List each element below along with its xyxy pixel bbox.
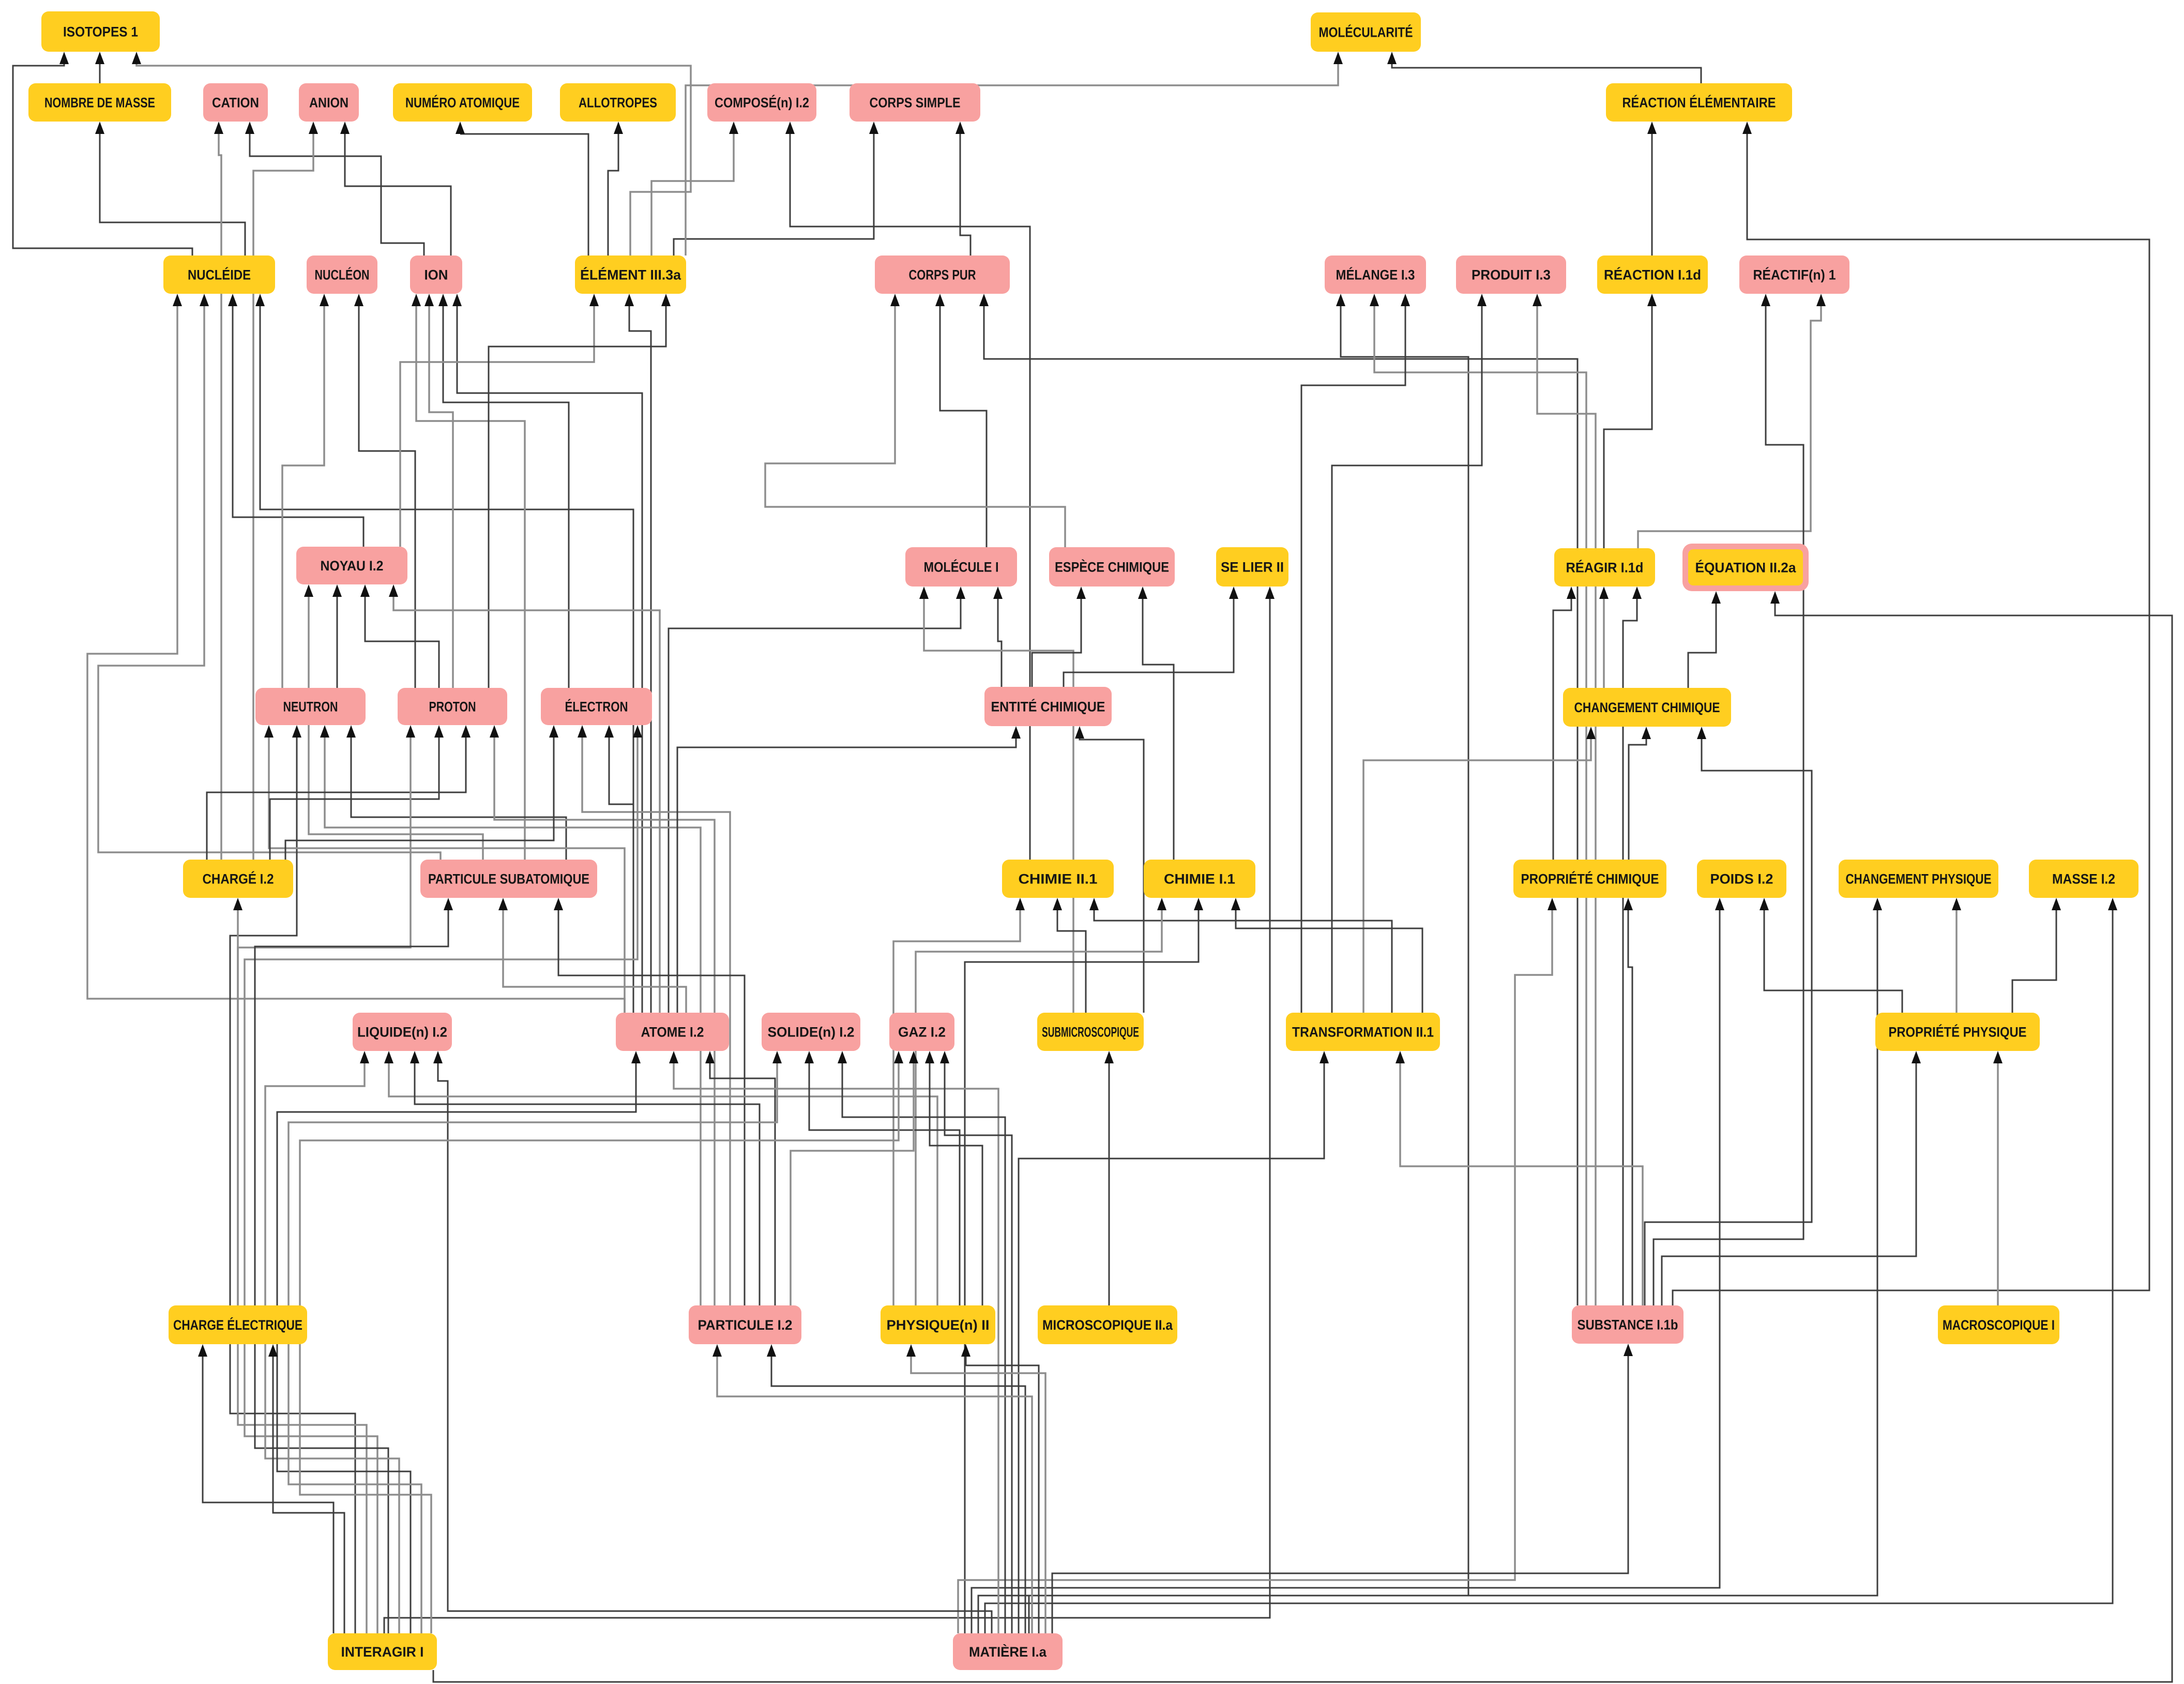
wire TRANSFO to PRODUIT <box>1332 294 1487 1013</box>
node MOLÉCULE I <box>905 547 1017 587</box>
svg-text:ANION: ANION <box>309 95 348 111</box>
wire MATIERE to PARTICULE <box>767 1344 1025 1633</box>
node PROPRIÉTÉ CHIMIQUE <box>1513 860 1666 898</box>
wire MATIERE to PARTICULE <box>712 1344 1032 1633</box>
node ÉLECTRON <box>541 688 652 725</box>
node NEUTRON <box>255 688 366 725</box>
wire ATOME to NEUTRON <box>264 725 625 1013</box>
node SUBSTANCE I.1b <box>1572 1305 1684 1344</box>
wire INTERAGIR to ATOME <box>277 1051 641 1633</box>
svg-text:NUCLÉIDE: NUCLÉIDE <box>188 267 251 283</box>
svg-text:MASSE I.2: MASSE I.2 <box>2052 871 2115 887</box>
svg-text:ESPÈCE CHIMIQUE: ESPÈCE CHIMIQUE <box>1055 559 1169 575</box>
wire NUCLEIDE to ISOTOPES <box>13 52 192 255</box>
wire CHARGE to ANION <box>253 122 318 860</box>
node ATOME I.2 <box>616 1013 729 1051</box>
wire PART_SUB to ION <box>412 294 525 860</box>
wire INTERAGIR to CHARGE_ELEC <box>268 1344 344 1633</box>
wire CHANGT_CHIM to REAGIR <box>1599 587 1609 688</box>
wire TRANSFO to CHANGT_CHIM <box>1363 727 1596 1013</box>
wire MATIERE to CHIMIE_I1 <box>965 898 1203 1633</box>
node SE LIER II <box>1216 547 1288 587</box>
svg-text:ÉQUATION II.2a: ÉQUATION II.2a <box>1695 560 1797 576</box>
wire MATIERE to LIQUIDE <box>433 1051 992 1633</box>
node NOYAU I.2 <box>296 547 407 584</box>
node RÉACTION ÉLÉMENTAIRE <box>1606 83 1792 122</box>
wire MATIERE to SOLIDE <box>838 1051 1005 1633</box>
wire MATIERE to MASSE <box>985 898 2117 1633</box>
wire PART_SUB to NEUTRON <box>346 725 566 860</box>
svg-text:TRANSFORMATION II.1: TRANSFORMATION II.1 <box>1292 1025 1434 1040</box>
node GAZ I.2 <box>889 1013 954 1051</box>
wire ATOME to NOYAU <box>389 584 660 1013</box>
svg-text:NOYAU I.2: NOYAU I.2 <box>321 558 384 574</box>
svg-text:MOLÉCULARITÉ: MOLÉCULARITÉ <box>1319 24 1413 40</box>
wire INTERAGIR to PART_SUB <box>255 898 453 1633</box>
svg-text:LIQUIDE(n) I.2: LIQUIDE(n) I.2 <box>357 1025 447 1040</box>
svg-text:MATIÈRE I.a: MATIÈRE I.a <box>969 1644 1047 1660</box>
wire MATIERE to PHYSIQUE <box>906 1344 1045 1633</box>
svg-text:MICROSCOPIQUE II.a: MICROSCOPIQUE II.a <box>1042 1317 1173 1333</box>
node MACROSCOPIQUE I <box>1938 1305 2059 1344</box>
wire ATOME to ELECTRON <box>604 725 633 1013</box>
node NUMÉRO ATOMIQUE <box>393 83 532 122</box>
node CHANGEMENT PHYSIQUE <box>1839 860 1998 898</box>
node COMPOSÉ(n) I.2 <box>707 83 816 122</box>
wire ATOME to NUCLEIDE <box>255 294 633 1013</box>
svg-text:CHANGEMENT PHYSIQUE: CHANGEMENT PHYSIQUE <box>1846 871 1992 887</box>
wire PROP_CHIM to CHANGT_CHIM <box>1629 727 1651 860</box>
node PRODUIT I.3 <box>1456 255 1566 294</box>
wire ION to ANION <box>340 122 451 255</box>
wire CHARGE to PROTON <box>270 725 444 860</box>
wire MATIERE to PROP_CHIM <box>958 898 1557 1633</box>
svg-text:PRODUIT I.3: PRODUIT I.3 <box>1472 267 1551 283</box>
wire PHYSIQUE to LIQUIDE <box>384 1051 937 1305</box>
svg-text:CHARGE ÉLECTRIQUE: CHARGE ÉLECTRIQUE <box>173 1317 302 1333</box>
node RÉAGIR I.1d <box>1554 548 1655 587</box>
svg-text:INTERAGIR I: INTERAGIR I <box>341 1644 424 1660</box>
wire PHYSIQUE to CHIMIE_I1 <box>916 898 1166 1305</box>
svg-text:POIDS I.2: POIDS I.2 <box>1710 871 1773 887</box>
node SUBMICROSCOPIQUE <box>1037 1013 1144 1051</box>
node CORPS SIMPLE <box>850 83 980 122</box>
svg-text:PHYSIQUE(n) II: PHYSIQUE(n) II <box>887 1317 990 1333</box>
node ANION <box>299 83 359 122</box>
wire CHARGE to ELECTRON <box>285 725 558 860</box>
node ÉLÉMENT III.3a <box>575 255 686 294</box>
node PROTON <box>398 688 507 725</box>
node NOMBRE DE MASSE <box>28 83 171 122</box>
node CHARGE ÉLECTRIQUE <box>169 1305 307 1344</box>
node ION <box>410 255 462 294</box>
svg-text:SUBSTANCE I.1b: SUBSTANCE I.1b <box>1578 1317 1678 1333</box>
node MASSE I.2 <box>2029 860 2138 898</box>
node PARTICULE SUBATOMIQUE <box>420 860 597 898</box>
wire INTERAGIR to ELECTRON <box>245 725 642 1633</box>
wire NEUTRON to NOYAU <box>332 584 342 688</box>
wire TRANSFO to MELANGE <box>1301 294 1410 1013</box>
wire PARTICULE to NEUTRON <box>320 725 701 1305</box>
svg-text:RÉACTION ÉLÉMENTAIRE: RÉACTION ÉLÉMENTAIRE <box>1622 95 1776 111</box>
wire PHYSIQUE to CHIMIE_II1 <box>893 898 1025 1305</box>
wire INTERAGIR to EQUATION <box>433 591 2172 1682</box>
wire PARTICULE to GAZ <box>791 1051 918 1305</box>
wire SUBMICRO to CHIMIE_II1 <box>1053 898 1086 1013</box>
wire SUBSTANCE to CORPS_PUR <box>979 294 1578 1305</box>
wire ESPECE to CORPS_PUR <box>765 294 1065 547</box>
svg-text:PARTICULE I.2: PARTICULE I.2 <box>698 1317 793 1333</box>
wire PROP_PHYS to CHANGT_PHYS <box>1952 898 1961 1013</box>
wire ELEMENT to COMPOSE <box>651 122 738 255</box>
wire MATIERE to TRANSFO <box>1019 1051 1329 1633</box>
svg-text:SE LIER II: SE LIER II <box>1221 560 1284 575</box>
svg-text:ION: ION <box>424 267 448 283</box>
node PROPRIÉTÉ PHYSIQUE <box>1875 1013 2040 1051</box>
wire MOLECULE to CORPS_PUR <box>935 294 987 547</box>
wire TRANSFO to CHIMIE_I1 <box>1231 898 1422 1013</box>
wire ELEMENT to ALLOTROPES <box>608 122 623 255</box>
node MOLÉCULARITÉ <box>1311 12 1421 52</box>
wire SUBSTANCE to REACTIF <box>1654 294 1803 1305</box>
node PARTICULE I.2 <box>689 1305 801 1344</box>
wire SUBSTANCE to MELANGE <box>1370 294 1586 1305</box>
wire MACRO to PROP_PHYS <box>1993 1051 2003 1305</box>
wire CHIMIE_II1 to COMPOSE <box>785 122 1030 860</box>
svg-text:MÉLANGE I.3: MÉLANGE I.3 <box>1336 267 1415 283</box>
wire MATIERE to PHYSIQUE <box>961 1344 1039 1633</box>
wire PROTON to NUCLEON <box>354 294 415 688</box>
node CHANGEMENT CHIMIQUE <box>1563 688 1731 727</box>
wire INTERAGIR to CHARGE_ELEC <box>198 1344 333 1633</box>
wire INTERAGIR to NEUTRON <box>230 725 355 1633</box>
wire ELEMENT to CORPS_SIMPLE <box>674 122 878 255</box>
svg-text:NEUTRON: NEUTRON <box>283 699 338 715</box>
wire INTERAGIR to SE_LIER <box>384 587 1275 1633</box>
svg-text:MOLÉCULE I: MOLÉCULE I <box>924 559 999 575</box>
svg-text:RÉACTION I.1d: RÉACTION I.1d <box>1604 267 1701 283</box>
wire INTERAGIR to SOLIDE <box>289 1051 782 1633</box>
node ÉQUATION II.2a <box>1682 544 1809 591</box>
node PHYSIQUE(n) II <box>881 1305 995 1344</box>
wire REAGIR to REACTION_I1D <box>1604 294 1657 548</box>
wire PROP_CHIM to REAGIR <box>1553 587 1576 860</box>
node CHIMIE II.1 <box>1002 860 1114 898</box>
node NUCLÉIDE <box>163 255 275 294</box>
svg-text:CORPS PUR: CORPS PUR <box>909 267 976 283</box>
wire ATOME to MOLECULE <box>669 587 965 1013</box>
node INTERAGIR I <box>328 1633 437 1670</box>
wire REAGIR to REACTIF <box>1638 294 1826 548</box>
node RÉACTIF(n) 1 <box>1739 255 1849 294</box>
wire ENTITE to SE_LIER <box>1064 587 1238 687</box>
wire SUBSTANCE to REAGIR <box>1623 587 1642 1305</box>
svg-text:ALLOTROPES: ALLOTROPES <box>579 95 657 111</box>
svg-text:ISOTOPES 1: ISOTOPES 1 <box>63 24 138 40</box>
wire CHANGT_CHIM to EQUATION <box>1688 591 1721 688</box>
node TRANSFORMATION II.1 <box>1286 1013 1440 1051</box>
svg-text:ÉLECTRON: ÉLECTRON <box>565 699 628 715</box>
node CATION <box>203 83 268 122</box>
svg-text:CORPS SIMPLE: CORPS SIMPLE <box>870 95 961 111</box>
svg-text:ENTITÉ CHIMIQUE: ENTITÉ CHIMIQUE <box>991 699 1105 715</box>
wire REACTION_ELEM to MOLECULARITE <box>1387 52 1701 83</box>
node ALLOTROPES <box>560 83 676 122</box>
wire ATOME to ELEMENT <box>625 294 651 1013</box>
wire PROTON to ION <box>424 294 453 688</box>
wire SUBSTANCE to TRANSFO <box>1396 1051 1643 1305</box>
wire CORPS_PUR to CORPS_SIMPLE <box>956 122 970 255</box>
wire NEUTRON to NUCLEON <box>282 294 329 688</box>
svg-text:GAZ I.2: GAZ I.2 <box>898 1025 946 1040</box>
wire SUBSTANCE to REACTION_ELEM <box>1673 122 2149 1305</box>
node CHARGÉ I.2 <box>183 860 293 898</box>
wire MATIERE to MELANGE <box>1029 294 1468 1633</box>
wire ATOME to PART_SUB <box>498 898 686 1013</box>
svg-text:PROTON: PROTON <box>429 699 476 715</box>
svg-text:MACROSCOPIQUE I: MACROSCOPIQUE I <box>1943 1317 2055 1333</box>
svg-text:CATION: CATION <box>212 95 259 111</box>
wire SUBSTANCE to CHANGT_CHIM <box>1645 727 1812 1305</box>
wire CHARGE_ELEC to CHARGE <box>233 898 242 1305</box>
svg-text:ÉLÉMENT III.3a: ÉLÉMENT III.3a <box>580 267 681 283</box>
wire CHIMIE_I1 to ESPECE <box>1138 587 1174 860</box>
wire PART_SUB to NOYAU <box>304 584 483 860</box>
wire MATIERE to ATOME <box>669 1051 998 1633</box>
wire SUBSTANCE to PROP_PHYS <box>1662 1051 1921 1305</box>
node SOLIDE(n) I.2 <box>762 1013 860 1051</box>
wire PART_SUB to NUCLEIDE <box>98 294 441 860</box>
svg-text:CHIMIE I.1: CHIMIE I.1 <box>1164 871 1235 887</box>
node RÉACTION I.1d <box>1597 255 1708 294</box>
wire REACTION_I1D to REACTION_ELEM <box>1647 122 1657 255</box>
node MATIÈRE I.a <box>953 1633 1063 1670</box>
wire ATOME to NUCLEIDE <box>87 294 625 1013</box>
svg-text:PROPRIÉTÉ CHIMIQUE: PROPRIÉTÉ CHIMIQUE <box>1521 871 1659 887</box>
wire MICRO to SUBMICRO <box>1104 1051 1114 1305</box>
svg-text:NOMBRE DE MASSE: NOMBRE DE MASSE <box>44 95 155 111</box>
svg-text:PROPRIÉTÉ PHYSIQUE: PROPRIÉTÉ PHYSIQUE <box>1889 1024 2027 1040</box>
wire INTERAGIR to PROTON <box>238 725 415 1633</box>
wire CHARGE to PROTON <box>207 725 471 860</box>
wire ION to CATION <box>245 122 424 255</box>
wire SUBSTANCE to PRODUIT <box>1533 294 1596 1305</box>
wire MATIERE to GAZ <box>940 1051 1012 1633</box>
wire CHARGE to CATION <box>214 122 223 860</box>
wire INTERAGIR to GAZ <box>300 1051 903 1633</box>
svg-text:CHARGÉ I.2: CHARGÉ I.2 <box>203 871 274 887</box>
wire ENTITE to MOLECULE <box>993 587 1003 687</box>
wire PHYSIQUE to GAZ <box>925 1051 982 1305</box>
wire PROTON to NOYAU <box>360 584 439 688</box>
wire PARTICULE to PART_SUB <box>554 898 745 1305</box>
wire ELEMENT to NUMERO <box>456 122 588 255</box>
wire PROTON to ELEMENT <box>489 294 671 688</box>
node NUCLÉON <box>307 255 377 294</box>
svg-text:SOLIDE(n) I.2: SOLIDE(n) I.2 <box>768 1025 855 1040</box>
wire SUBMICRO to MOLECULE <box>919 587 1073 1013</box>
wire ELEMENT to ISOTOPES <box>132 52 691 255</box>
svg-text:NUCLÉON: NUCLÉON <box>315 267 370 283</box>
wire ATOME to ENTITE <box>677 726 1021 1013</box>
node MICROSCOPIQUE II.a <box>1038 1305 1177 1344</box>
svg-text:ATOME I.2: ATOME I.2 <box>641 1025 704 1040</box>
node MÉLANGE I.3 <box>1325 255 1426 294</box>
wire ATOME to ION <box>452 294 642 1013</box>
wire PARTICULE to PROTON <box>490 725 715 1305</box>
wire PROP_PHYS to POIDS <box>1760 898 1902 1013</box>
wire PROP_PHYS to MASSE <box>2012 898 2061 1013</box>
svg-text:PARTICULE SUBATOMIQUE: PARTICULE SUBATOMIQUE <box>428 871 589 887</box>
wire NOYAU to NUCLEIDE <box>228 294 363 547</box>
wire MATIERE to CHANGT_PHYS <box>978 898 1882 1633</box>
svg-text:COMPOSÉ(n) I.2: COMPOSÉ(n) I.2 <box>715 95 809 111</box>
wire SUBMICRO to ENTITE <box>1075 726 1144 1013</box>
svg-text:SUBMICROSCOPIQUE: SUBMICROSCOPIQUE <box>1042 1025 1139 1040</box>
svg-text:CHIMIE II.1: CHIMIE II.1 <box>1019 871 1098 887</box>
wire NUCLEIDE to NOMBRE <box>95 122 245 255</box>
wire ENTITE to ESPECE <box>1032 587 1086 687</box>
node ESPÈCE CHIMIQUE <box>1049 547 1175 587</box>
node POIDS I.2 <box>1697 860 1786 898</box>
wire PARTICULE to LIQUIDE <box>410 1051 760 1305</box>
node LIQUIDE(n) I.2 <box>353 1013 452 1051</box>
wire PHYSIQUE to SOLIDE <box>805 1051 960 1305</box>
wire PARTICULE to ATOME <box>705 1051 775 1305</box>
wire MATIERE to SUBSTANCE <box>1052 1344 1633 1633</box>
node ENTITÉ CHIMIQUE <box>984 687 1112 726</box>
wire ELECTRON to ION <box>438 294 569 688</box>
wire PARTICULE to ELECTRON <box>578 725 730 1305</box>
node CHIMIE I.1 <box>1144 860 1255 898</box>
wire MATIERE to POIDS <box>972 898 1724 1633</box>
svg-text:NUMÉRO ATOMIQUE: NUMÉRO ATOMIQUE <box>405 95 520 111</box>
wire INTERAGIR to LIQUIDE <box>265 1051 399 1633</box>
svg-text:CHANGEMENT CHIMIQUE: CHANGEMENT CHIMIQUE <box>1574 700 1720 715</box>
svg-text:RÉACTIF(n) 1: RÉACTIF(n) 1 <box>1753 267 1836 283</box>
node ISOTOPES 1 <box>41 11 160 52</box>
wire TRANSFO to CHIMIE_II1 <box>1089 898 1392 1013</box>
svg-text:RÉAGIR I.1d: RÉAGIR I.1d <box>1566 560 1644 576</box>
wire NOYAU to ELEMENT <box>400 294 599 547</box>
wire NOMBRE to ISOTOPES <box>95 52 104 83</box>
wire SUBSTANCE to PROP_CHIM <box>1624 898 1633 1305</box>
wire ELEMENT to MOLECULARITE <box>686 52 1343 255</box>
node CORPS PUR <box>875 255 1010 294</box>
